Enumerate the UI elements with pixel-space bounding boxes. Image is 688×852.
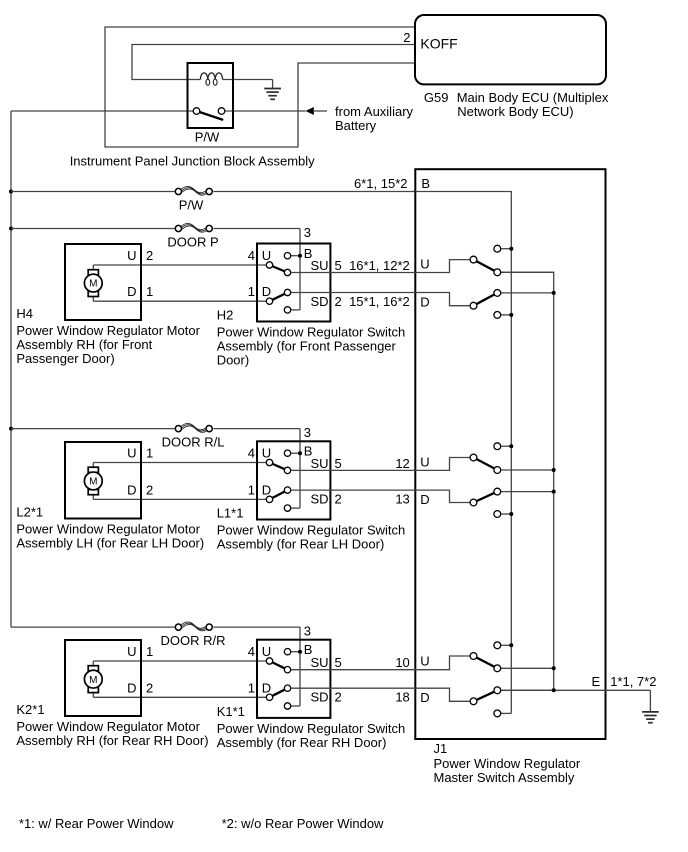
svg-text:L2*1: L2*1 bbox=[16, 505, 43, 520]
svg-text:D: D bbox=[262, 482, 271, 497]
svg-text:*2: w/o Rear Power Window: *2: w/o Rear Power Window bbox=[222, 816, 384, 831]
svg-text:18: 18 bbox=[395, 690, 409, 705]
svg-text:1: 1 bbox=[248, 482, 255, 497]
svg-text:Power Window Regulator Motor: Power Window Regulator Motor bbox=[16, 719, 200, 734]
svg-text:2: 2 bbox=[403, 30, 410, 45]
svg-text:DOOR R/R: DOOR R/R bbox=[161, 633, 226, 648]
svg-text:U: U bbox=[127, 644, 136, 659]
svg-text:2: 2 bbox=[146, 680, 153, 695]
svg-text:6*1, 15*2: 6*1, 15*2 bbox=[354, 176, 408, 191]
svg-text:D: D bbox=[127, 482, 136, 497]
svg-text:3: 3 bbox=[304, 225, 311, 240]
svg-text:D: D bbox=[420, 690, 429, 705]
svg-text:D: D bbox=[262, 680, 271, 695]
svg-text:D: D bbox=[127, 284, 136, 299]
svg-text:SU: SU bbox=[311, 655, 329, 670]
svg-text:U: U bbox=[127, 248, 136, 263]
svg-text:M: M bbox=[89, 675, 97, 686]
svg-text:H4: H4 bbox=[16, 306, 33, 321]
svg-text:Power Window Regulator Switch: Power Window Regulator Switch bbox=[217, 523, 406, 538]
svg-text:Main Body ECU (Multiplex: Main Body ECU (Multiplex bbox=[457, 90, 609, 105]
svg-text:SU: SU bbox=[311, 258, 329, 273]
svg-text:P/W: P/W bbox=[179, 198, 204, 213]
svg-text:1: 1 bbox=[146, 446, 153, 461]
svg-text:Battery: Battery bbox=[335, 118, 377, 133]
svg-text:Door): Door) bbox=[217, 353, 250, 368]
svg-text:Assembly (for Rear RH Door): Assembly (for Rear RH Door) bbox=[217, 735, 387, 750]
svg-text:U: U bbox=[420, 257, 429, 272]
svg-text:SU: SU bbox=[311, 456, 329, 471]
svg-text:Power Window Regulator Motor: Power Window Regulator Motor bbox=[16, 522, 200, 537]
svg-text:U: U bbox=[262, 248, 271, 263]
svg-text:16*1, 12*2: 16*1, 12*2 bbox=[349, 258, 410, 273]
svg-text:SD: SD bbox=[311, 294, 329, 309]
svg-text:U: U bbox=[127, 446, 136, 461]
svg-text:U: U bbox=[420, 654, 429, 669]
svg-text:Passenger Door): Passenger Door) bbox=[16, 351, 114, 366]
svg-text:3: 3 bbox=[304, 425, 311, 440]
svg-text:Assembly LH (for Rear LH Door): Assembly LH (for Rear LH Door) bbox=[16, 536, 204, 551]
svg-text:Assembly (for Front Passenger: Assembly (for Front Passenger bbox=[217, 339, 397, 354]
svg-text:Power Window Regulator Switch: Power Window Regulator Switch bbox=[217, 325, 406, 340]
svg-text:4: 4 bbox=[248, 248, 255, 263]
svg-text:5: 5 bbox=[335, 456, 342, 471]
svg-text:Assembly RH (for Rear RH Door): Assembly RH (for Rear RH Door) bbox=[16, 733, 208, 748]
svg-text:H2: H2 bbox=[217, 308, 234, 323]
svg-text:Assembly (for Rear LH Door): Assembly (for Rear LH Door) bbox=[217, 537, 385, 552]
svg-text:1: 1 bbox=[146, 644, 153, 659]
svg-text:2: 2 bbox=[146, 482, 153, 497]
svg-text:3: 3 bbox=[304, 623, 311, 638]
svg-text:KOFF: KOFF bbox=[420, 36, 457, 52]
svg-text:Power Window Regulator Switch: Power Window Regulator Switch bbox=[217, 721, 406, 736]
svg-text:E: E bbox=[592, 674, 601, 689]
svg-text:U: U bbox=[262, 644, 271, 659]
svg-text:U: U bbox=[262, 446, 271, 461]
svg-text:DOOR R/L: DOOR R/L bbox=[162, 435, 225, 450]
svg-text:Power Window Regulator: Power Window Regulator bbox=[434, 756, 581, 771]
svg-text:J1: J1 bbox=[434, 741, 448, 756]
svg-text:from Auxiliary: from Auxiliary bbox=[335, 104, 414, 119]
svg-text:M: M bbox=[89, 279, 97, 290]
svg-text:10: 10 bbox=[395, 655, 409, 670]
svg-text:Master Switch Assembly: Master Switch Assembly bbox=[434, 770, 575, 785]
svg-text:D: D bbox=[420, 295, 429, 310]
svg-text:2: 2 bbox=[335, 690, 342, 705]
svg-text:U: U bbox=[420, 454, 429, 469]
svg-text:2: 2 bbox=[335, 492, 342, 507]
svg-text:1*1, 7*2: 1*1, 7*2 bbox=[610, 674, 656, 689]
svg-text:P/W: P/W bbox=[195, 129, 220, 144]
svg-text:2: 2 bbox=[146, 248, 153, 263]
svg-text:K2*1: K2*1 bbox=[16, 702, 44, 717]
svg-text:DOOR P: DOOR P bbox=[167, 235, 218, 250]
svg-text:5: 5 bbox=[335, 655, 342, 670]
svg-text:Assembly RH (for Front: Assembly RH (for Front bbox=[16, 337, 152, 352]
svg-text:SD: SD bbox=[311, 690, 329, 705]
svg-text:SD: SD bbox=[311, 492, 329, 507]
svg-text:1: 1 bbox=[146, 284, 153, 299]
svg-text:D: D bbox=[127, 680, 136, 695]
svg-text:G59: G59 bbox=[424, 90, 449, 105]
svg-text:4: 4 bbox=[248, 644, 255, 659]
svg-text:1: 1 bbox=[248, 680, 255, 695]
svg-text:1: 1 bbox=[248, 284, 255, 299]
svg-text:D: D bbox=[420, 492, 429, 507]
svg-text:B: B bbox=[421, 176, 430, 191]
svg-text:Power Window Regulator Motor: Power Window Regulator Motor bbox=[16, 323, 200, 338]
svg-text:15*1, 16*2: 15*1, 16*2 bbox=[349, 294, 410, 309]
svg-text:M: M bbox=[89, 477, 97, 488]
svg-text:2: 2 bbox=[335, 294, 342, 309]
svg-text:5: 5 bbox=[335, 258, 342, 273]
svg-text:*1: w/ Rear Power Window: *1: w/ Rear Power Window bbox=[19, 816, 174, 831]
svg-text:D: D bbox=[262, 284, 271, 299]
svg-text:Instrument Panel Junction Bloc: Instrument Panel Junction Block Assembly bbox=[70, 154, 315, 169]
svg-text:K1*1: K1*1 bbox=[217, 704, 245, 719]
svg-text:4: 4 bbox=[248, 446, 255, 461]
svg-text:12: 12 bbox=[395, 456, 409, 471]
svg-text:L1*1: L1*1 bbox=[217, 506, 244, 521]
svg-text:Network Body ECU): Network Body ECU) bbox=[457, 104, 573, 119]
svg-text:13: 13 bbox=[395, 492, 409, 507]
